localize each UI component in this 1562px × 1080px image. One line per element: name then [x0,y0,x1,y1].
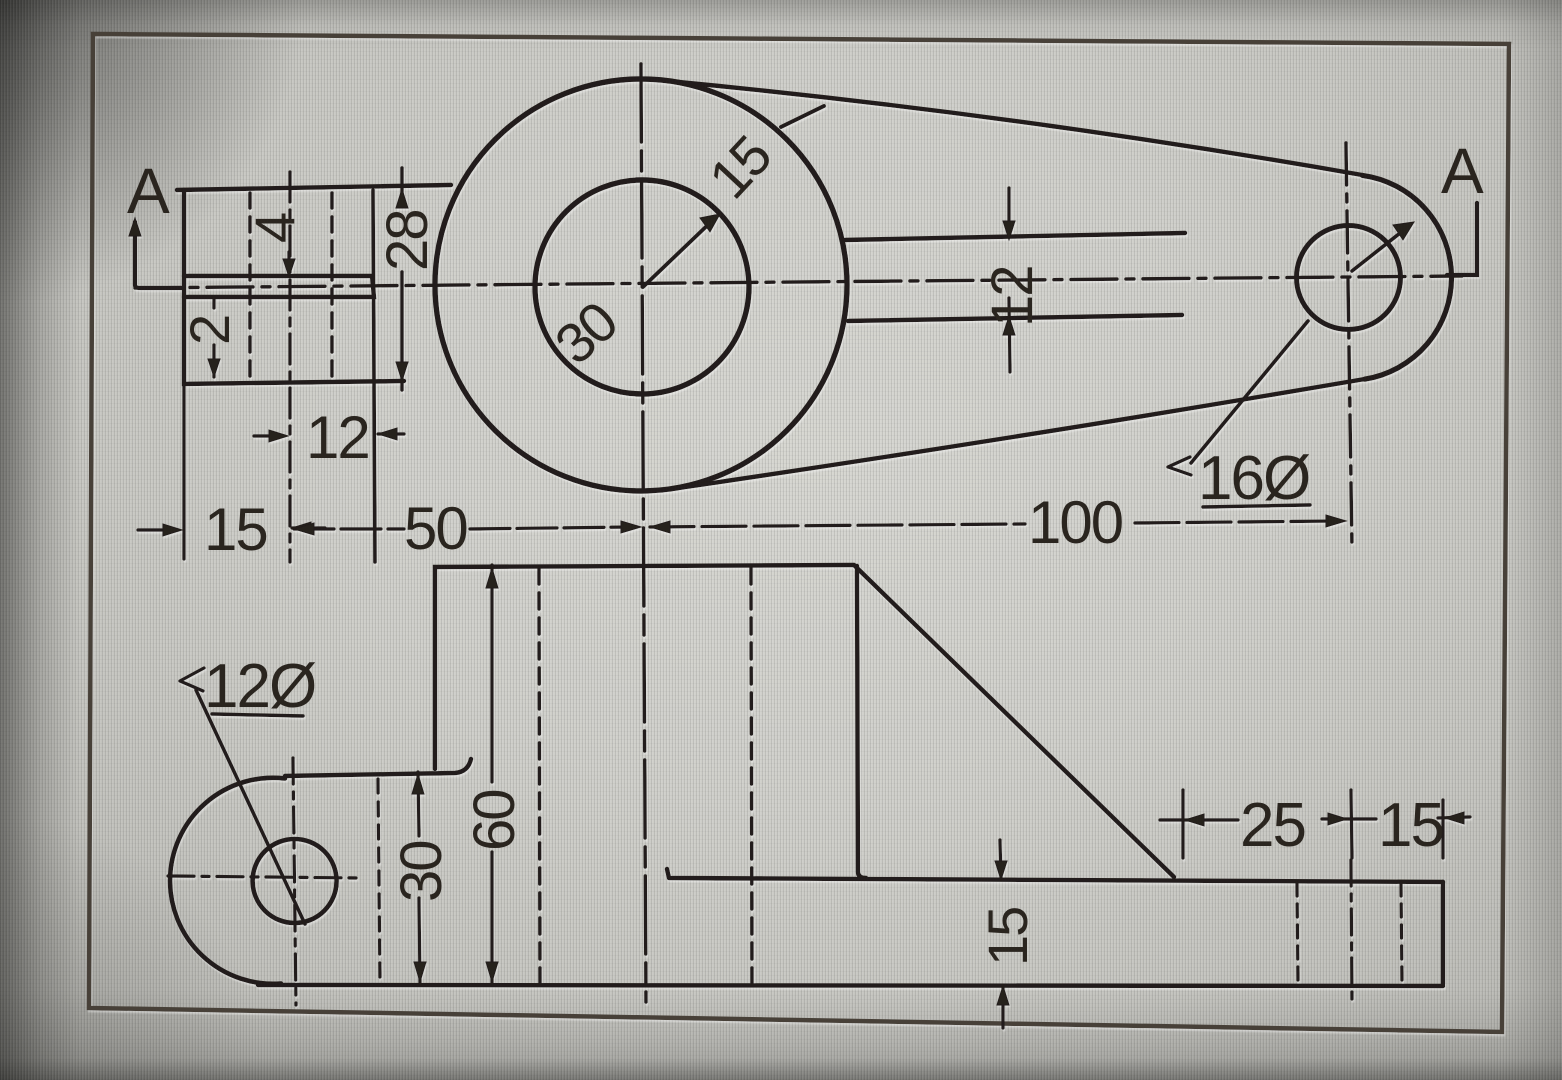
base right edge [1441,882,1445,984]
dim 100 [650,521,1340,527]
svg-text:15: 15 [204,496,267,563]
base bottom edge [258,985,1443,986]
svg-text:16Ø: 16Ø [1198,444,1310,513]
section cut label left [135,222,183,288]
dim 15 top [138,528,325,530]
section view A-A outline [177,185,451,190]
svg-text:15: 15 [976,908,1039,966]
svg-text:100: 100 [1028,489,1123,556]
svg-text:A: A [127,155,170,227]
svg-text:25: 25 [1240,791,1305,860]
section left extension line [182,384,185,559]
dim 25 line [1160,817,1470,820]
right boss hole circle [1297,226,1401,330]
dim 2 [212,298,215,377]
dim 15 base height [1000,840,1003,1028]
wire horizontal centerline A-A [135,276,1462,288]
svg-text:4: 4 [243,213,306,243]
dim 60 [490,565,493,984]
detail top line [285,759,471,776]
right boss outer arc [1362,175,1451,379]
gusset chamfer [855,566,1174,877]
svg-text:12Ø: 12Ø [204,652,316,721]
dim 12 top [254,434,404,436]
svg-text:2: 2 [178,316,241,345]
base top edge [667,869,1443,882]
hidden hole lines front view [539,568,540,983]
svg-text:12: 12 [980,266,1045,327]
svg-text:60: 60 [462,790,527,851]
svg-text:15: 15 [697,125,783,211]
dim 28 [400,168,403,390]
wire upper tangent [668,81,1362,175]
svg-text:30: 30 [389,841,454,902]
dim 25 / 15 extensions [1183,790,1443,858]
svg-text:15: 15 [1378,791,1443,860]
svg-text:A: A [1441,135,1484,207]
leader 16dia [1191,321,1308,463]
radius leader 30 [643,221,712,287]
dim 50 [294,527,634,529]
section cut label right [1447,203,1477,275]
bottom-left boss outer arc [170,778,285,984]
svg-text:30: 30 [543,290,628,376]
big boss outer circle [435,79,847,491]
section center extension line [288,172,291,562]
leader 12dia [196,690,305,924]
dim 4 arrow [287,252,290,274]
hidden 16 hole lines base [1297,883,1298,982]
wire right boss vertical centerline [1346,143,1352,549]
wire main vertical centerline [641,64,646,1002]
leader 15 tail [781,106,824,127]
keyway slot [184,276,374,297]
svg-text:12: 12 [306,404,369,471]
section arrow right [1352,230,1404,271]
hidden hole lines in section [248,193,251,379]
svg-text:50: 50 [404,495,467,562]
bottom-left centerlines [168,876,358,878]
svg-text:28: 28 [375,210,440,271]
dim 12 arm [1009,188,1010,372]
hidden slot line bottom view [378,779,380,982]
right boss centerline bottom [1351,860,1352,1002]
wire lower tangent [672,379,1365,489]
bottom-left hole [253,839,337,923]
big boss hole circle [535,180,749,394]
wire arm lower edge [848,315,1182,321]
wire arm upper edge [845,233,1185,240]
dim 30 bottom [418,772,420,984]
front view outline [435,565,854,769]
